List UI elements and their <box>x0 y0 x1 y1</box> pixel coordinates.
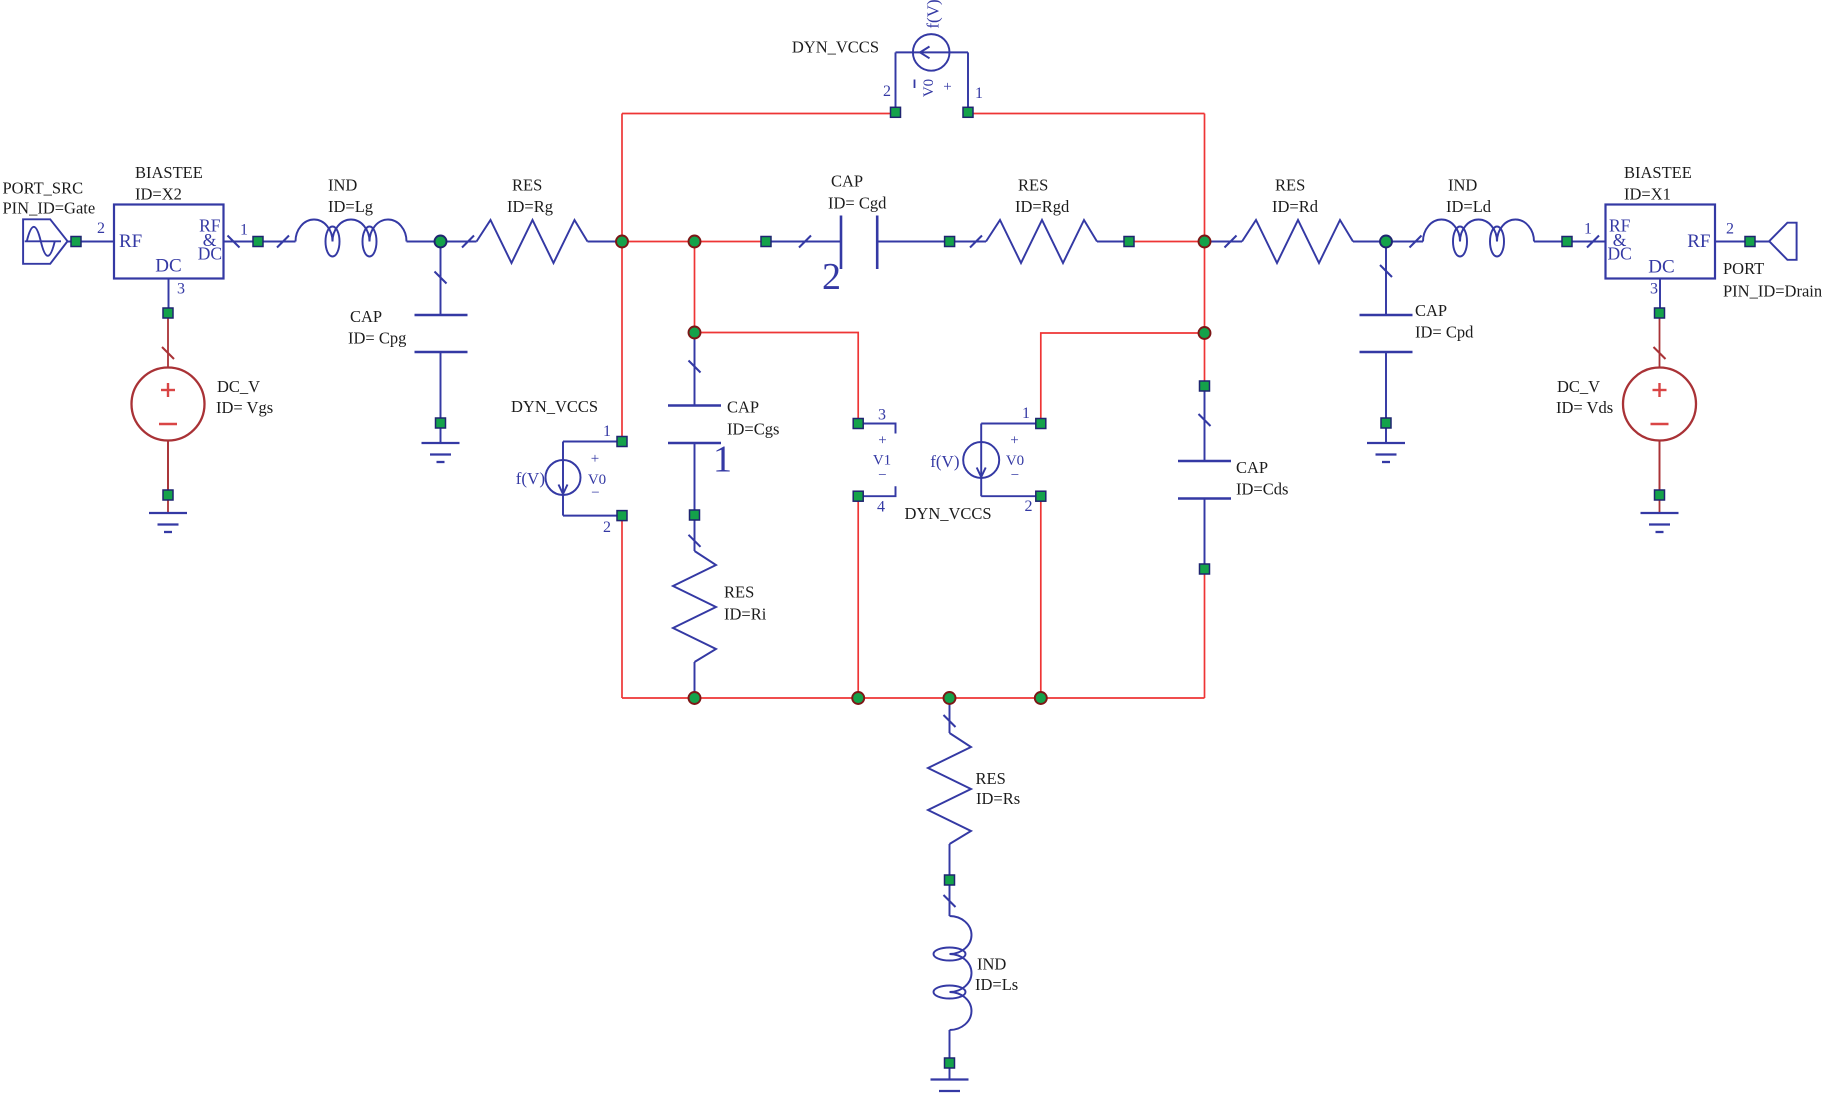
svg-text:DC_V: DC_V <box>217 377 260 396</box>
svg-text:BIASTEE: BIASTEE <box>1624 163 1692 182</box>
svg-text:ID=Lg: ID=Lg <box>328 197 373 216</box>
svg-text:DC: DC <box>198 243 222 263</box>
svg-text:3: 3 <box>1650 281 1658 298</box>
svg-text:2: 2 <box>1726 221 1734 238</box>
svg-text:+: + <box>1010 433 1018 449</box>
svg-text:BIASTEE: BIASTEE <box>135 163 203 182</box>
svg-text:ID= Vds: ID= Vds <box>1556 398 1613 417</box>
svg-text:DC: DC <box>1648 257 1674 278</box>
svg-text:1: 1 <box>1584 221 1592 238</box>
svg-text:ID= Cpd: ID= Cpd <box>1415 323 1474 342</box>
svg-text:IND: IND <box>977 955 1006 974</box>
svg-text:DYN_VCCS: DYN_VCCS <box>905 504 992 523</box>
svg-text:RES: RES <box>1018 176 1048 195</box>
svg-text:2: 2 <box>97 220 105 237</box>
svg-text:ID=X2: ID=X2 <box>135 185 182 204</box>
svg-text:CAP: CAP <box>350 307 382 326</box>
svg-text:1: 1 <box>713 439 732 481</box>
svg-text:PIN_ID=Gate: PIN_ID=Gate <box>3 199 96 218</box>
svg-text:2: 2 <box>603 519 611 536</box>
svg-text:RES: RES <box>724 583 754 602</box>
svg-text:ID=Rs: ID=Rs <box>976 789 1020 808</box>
svg-text:V0: V0 <box>921 79 937 97</box>
svg-text:V1: V1 <box>873 453 891 469</box>
svg-text:4: 4 <box>877 499 885 516</box>
svg-text:DC: DC <box>1608 243 1632 263</box>
svg-text:RF: RF <box>1687 231 1710 252</box>
svg-text:PORT_SRC: PORT_SRC <box>3 179 84 198</box>
svg-text:2: 2 <box>1025 498 1033 515</box>
svg-text:ID=Rg: ID=Rg <box>507 197 553 216</box>
svg-text:ID=Cgs: ID=Cgs <box>727 420 779 439</box>
svg-text:1: 1 <box>603 423 611 440</box>
svg-text:RF: RF <box>119 231 142 252</box>
svg-text:CAP: CAP <box>831 172 863 191</box>
svg-text:+: + <box>943 79 951 95</box>
svg-text:ID= Cpg: ID= Cpg <box>348 329 406 348</box>
svg-text:1: 1 <box>1022 405 1030 422</box>
svg-text:DYN_VCCS: DYN_VCCS <box>511 397 598 416</box>
svg-text:RES: RES <box>976 769 1006 788</box>
svg-text:RES: RES <box>512 176 542 195</box>
svg-text:ID=Ls: ID=Ls <box>975 975 1018 994</box>
svg-text:RES: RES <box>1275 176 1305 195</box>
svg-text:ID=Ld: ID=Ld <box>1446 197 1492 216</box>
svg-text:1: 1 <box>240 222 248 239</box>
svg-text:f(V): f(V) <box>930 452 959 471</box>
svg-text:DYN_VCCS: DYN_VCCS <box>792 38 879 57</box>
svg-text:3: 3 <box>177 281 185 298</box>
svg-text:IND: IND <box>328 176 357 195</box>
svg-text:IND: IND <box>1448 176 1477 195</box>
svg-text:ID=Cds: ID=Cds <box>1236 480 1288 499</box>
svg-text:CAP: CAP <box>727 398 759 417</box>
svg-text:ID=Rgd: ID=Rgd <box>1015 197 1070 216</box>
svg-text:f(V): f(V) <box>924 0 943 29</box>
svg-text:+: + <box>878 433 886 449</box>
svg-text:ID=Ri: ID=Ri <box>724 605 767 624</box>
svg-text:ID=X1: ID=X1 <box>1624 185 1671 204</box>
svg-text:ID= Vgs: ID= Vgs <box>216 398 273 417</box>
svg-text:−: − <box>878 468 886 484</box>
svg-text:−: − <box>591 485 599 501</box>
svg-text:CAP: CAP <box>1236 458 1268 477</box>
svg-text:1: 1 <box>975 85 983 102</box>
svg-text:DC_V: DC_V <box>1557 377 1600 396</box>
svg-text:DC: DC <box>155 256 181 277</box>
svg-text:f(V): f(V) <box>516 469 545 488</box>
svg-text:CAP: CAP <box>1415 301 1447 320</box>
svg-text:−: − <box>1011 468 1019 484</box>
svg-text:2: 2 <box>822 256 841 298</box>
svg-text:ID=Rd: ID=Rd <box>1272 197 1319 216</box>
svg-text:2: 2 <box>883 83 891 100</box>
svg-text:PORT: PORT <box>1723 259 1764 278</box>
svg-text:ID= Cgd: ID= Cgd <box>828 194 887 213</box>
svg-text:3: 3 <box>878 407 886 424</box>
svg-text:+: + <box>591 451 599 467</box>
svg-text:PIN_ID=Drain: PIN_ID=Drain <box>1723 282 1822 301</box>
